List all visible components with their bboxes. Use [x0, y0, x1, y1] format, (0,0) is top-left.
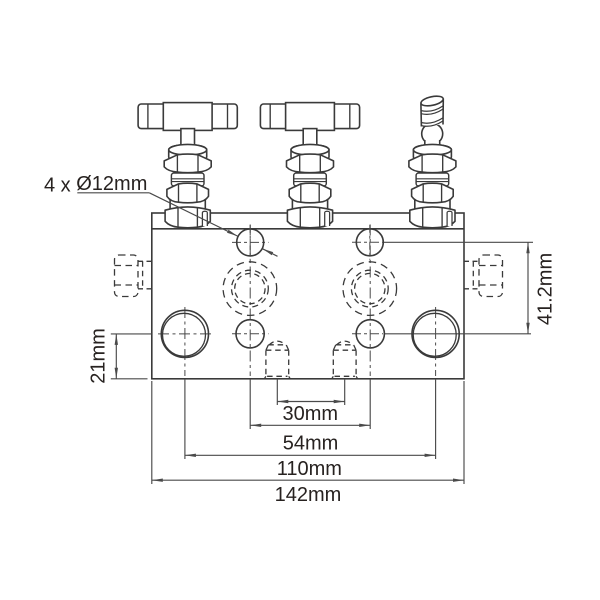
extension line 21mm bottom	[111, 378, 148, 380]
svg-text:142mm: 142mm	[275, 484, 342, 506]
hole top-right vertical tick	[369, 225, 371, 260]
valve V2 body cylinder	[292, 198, 327, 216]
centerline top-left hole horizontal	[232, 241, 269, 243]
hidden mounting stud left (dashed)	[264, 341, 290, 379]
valve V2 gland hex nut	[287, 154, 334, 173]
leader line 4xØ12 (text to hole)	[149, 193, 237, 236]
extension line 30mm right	[344, 379, 346, 405]
valve V3 lever handle cylinder	[421, 99, 443, 127]
valve V1 base hex nut	[165, 207, 210, 228]
centerline bottom-left hole horizontal	[232, 333, 269, 335]
valve V3 gland hex nut	[409, 154, 456, 173]
leader arrowhead at hole left	[227, 230, 238, 236]
valve V2 stem	[303, 129, 317, 151]
centerline bottom-right hole horizontal	[352, 333, 383, 335]
valve V3 packing rings	[416, 173, 449, 186]
dimension 21mm arrow bottom	[115, 368, 118, 379]
valve V3 bonnet cap disc	[413, 145, 451, 163]
dimension 41.2mm arrow top	[526, 242, 529, 253]
extension line 41.2mm bottom	[384, 333, 531, 335]
svg-text:110mm: 110mm	[277, 458, 342, 480]
valve V1 T-handle bar	[138, 104, 237, 129]
extension line 110mm right	[435, 379, 437, 459]
svg-text:30mm: 30mm	[283, 403, 339, 425]
side port right bore	[412, 310, 459, 357]
dimension 142mm line	[152, 479, 464, 481]
hidden gauge port left (dashed circles)	[223, 262, 277, 316]
valve V2 packing rings	[294, 173, 327, 186]
valve V1 bonnet cap disc	[169, 145, 207, 163]
centerline left port horizontal	[158, 333, 214, 335]
extension line 30mm left	[276, 379, 278, 405]
valve V3 bleed plug nub	[447, 211, 452, 226]
dimension 110mm arrow right	[425, 454, 436, 457]
dimension 142mm arrow right	[453, 479, 464, 482]
hole bottom-right Ø12	[356, 320, 384, 348]
hidden side fitting right (dashed hex)	[464, 255, 503, 297]
hidden gauge port right (dashed circles)	[343, 262, 397, 316]
centerline left port vertical	[184, 307, 186, 376]
svg-text:21mm: 21mm	[87, 328, 109, 384]
dimension 110mm arrow left	[185, 454, 196, 457]
dimension 41.2mm arrow bottom	[526, 323, 529, 334]
extension line 142mm right	[463, 381, 465, 484]
body top step edge	[152, 228, 464, 230]
valve V1 bonnet hex	[167, 183, 209, 203]
hidden side fitting left (dashed hex)	[115, 255, 152, 297]
valve V1 gland hex nut	[164, 154, 211, 173]
valve V1 packing rings	[171, 173, 204, 186]
hidden mounting stud right (dashed)	[332, 341, 358, 379]
dimension 30mm arrow left	[277, 400, 288, 403]
centerline top-right hole horizontal	[352, 241, 383, 243]
leader arrowhead at hole right	[263, 249, 274, 255]
dimension 21mm arrow top	[115, 334, 118, 345]
valve V2 base hex nut	[287, 207, 332, 228]
centerline right column vertical	[369, 225, 371, 377]
valve V2 bonnet cap disc	[291, 145, 329, 163]
valve V3 ball joint	[422, 123, 443, 144]
centerline left column vertical	[249, 225, 251, 377]
extension line 142mm left	[151, 381, 153, 484]
valve V3 stem neck	[425, 140, 440, 152]
valve V3 body cylinder	[415, 198, 450, 216]
leader line 4xØ12 tail	[263, 249, 278, 256]
valve V2 bleed plug nub	[325, 211, 330, 226]
hole bottom-left Ø12	[236, 320, 264, 348]
hole top-left vertical tick	[249, 225, 251, 260]
hole top-left Ø12	[237, 229, 264, 256]
valve V3 bonnet hex	[412, 183, 454, 203]
extension line 54mm left	[249, 379, 251, 429]
svg-text:54mm: 54mm	[283, 432, 339, 454]
dimension 142mm arrow left	[152, 479, 163, 482]
label underline (leader shoulder)	[77, 192, 149, 194]
dimension 54mm arrow right	[359, 424, 370, 427]
dimension 30mm line	[277, 401, 344, 403]
dimension 21mm line	[115, 334, 117, 379]
extension line 110mm left	[184, 379, 186, 459]
centerline right port vertical	[435, 307, 437, 376]
dimension 41.2mm line	[527, 242, 529, 333]
valve V3 handle grip bands	[421, 106, 443, 111]
extension line 41.2mm top	[384, 241, 533, 243]
valve V1 stem	[181, 129, 195, 151]
valve V1 bleed plug nub	[202, 211, 207, 226]
valve V1 body cylinder	[170, 198, 205, 216]
extension line 54mm right	[369, 379, 371, 429]
dimension 54mm line	[250, 424, 370, 426]
dimension 54mm arrow left	[250, 424, 261, 427]
dimension 30mm arrow right	[334, 400, 345, 403]
svg-text:4 x Ø12mm: 4 x Ø12mm	[44, 173, 147, 196]
hole top-right Ø12	[356, 229, 383, 256]
valve V3 base hex nut	[410, 207, 455, 228]
dimension 110mm line	[185, 454, 436, 456]
extension line 21mm top	[111, 333, 152, 335]
valve V2 bonnet hex	[289, 183, 331, 203]
svg-text:41.2mm: 41.2mm	[534, 253, 556, 325]
manifold body outline	[152, 213, 464, 379]
valve V2 T-handle bar	[260, 104, 359, 129]
side port left bore	[161, 310, 208, 357]
